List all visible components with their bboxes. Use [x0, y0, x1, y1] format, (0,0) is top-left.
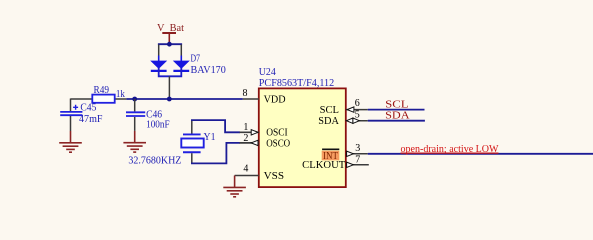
bottom plate	[60, 114, 82, 116]
svg-text:2: 2	[243, 133, 248, 144]
pin 7 stub with output arrow	[346, 162, 369, 167]
wire SDA	[368, 120, 425, 122]
anode pin left	[158, 45, 160, 56]
pin 1 stub with input arrow	[240, 130, 259, 135]
power port V_Bat	[157, 23, 184, 44]
pin 6 stub with input arrow	[346, 107, 368, 112]
top plate	[126, 111, 145, 113]
cathode join	[158, 68, 182, 76]
svg-text:SDA: SDA	[385, 110, 410, 122]
anode axis right	[180, 56, 182, 62]
svg-text:SCL: SCL	[320, 105, 339, 116]
svg-text:OSCO: OSCO	[266, 138, 290, 149]
wire crystal top to OSCI	[191, 120, 240, 132]
top plate	[183, 133, 201, 135]
common cathode pin	[168, 76, 170, 99]
resistor R49	[92, 85, 125, 103]
ground at VSS	[223, 187, 246, 196]
svg-text:OSCI: OSCI	[266, 128, 288, 139]
svg-text:5: 5	[355, 109, 360, 120]
svg-text:D7: D7	[191, 53, 201, 64]
svg-text:100nF: 100nF	[146, 120, 170, 131]
svg-text:32.7680KHZ: 32.7680KHZ	[128, 155, 181, 166]
wire SCL	[368, 109, 425, 111]
diode triangle right	[173, 61, 190, 69]
bottom pin	[70, 116, 72, 131]
svg-text:VSS: VSS	[264, 171, 285, 182]
ground under C46	[123, 131, 146, 152]
top pin	[191, 121, 193, 135]
bottom pin	[134, 117, 136, 131]
svg-text:VDD: VDD	[264, 95, 286, 106]
svg-text:1: 1	[243, 122, 248, 133]
wire rail VDD	[71, 98, 243, 100]
svg-text:1k: 1k	[116, 89, 126, 100]
note underline	[401, 152, 499, 154]
svg-text:47mF: 47mF	[79, 114, 103, 125]
bottom plate	[183, 151, 201, 153]
cathode bar right	[173, 70, 189, 72]
svg-text:7: 7	[355, 154, 360, 165]
INT overline	[322, 148, 339, 150]
svg-text:6: 6	[355, 98, 360, 109]
top pin	[134, 99, 136, 111]
svg-text:PCF8563T/F4,112: PCF8563T/F4,112	[259, 78, 334, 89]
anode pin right	[180, 45, 182, 56]
capacitor C46	[126, 99, 170, 131]
svg-text:8: 8	[243, 88, 248, 99]
svg-text:SDA: SDA	[318, 116, 339, 127]
pin 3 stub with output arrow	[346, 151, 368, 156]
top pin	[70, 99, 72, 112]
svg-text:3: 3	[355, 143, 360, 154]
svg-text:BAV170: BAV170	[191, 65, 226, 76]
IC U24 PCF8563T	[259, 67, 346, 187]
node junction diode	[167, 97, 172, 102]
pin 8 stub	[243, 98, 259, 100]
crystal Y1	[181, 121, 215, 164]
pin 5 stub with bidirectional arrow	[346, 118, 368, 123]
svg-text:U24: U24	[259, 67, 277, 78]
capacitor C45	[60, 99, 102, 132]
top plate	[60, 111, 82, 113]
body	[181, 139, 203, 148]
pin 2 stub with output arrow	[240, 140, 259, 145]
node junction at V_Bat	[167, 42, 172, 47]
bottom pin	[191, 153, 193, 163]
node junction C46	[132, 97, 137, 102]
bottom plate	[126, 115, 145, 117]
anode axis left	[158, 56, 160, 62]
svg-text:Y1: Y1	[204, 132, 216, 143]
wire V_Bat to diode anodes	[158, 43, 182, 45]
svg-text:4: 4	[243, 164, 248, 175]
svg-text:C45: C45	[80, 103, 96, 114]
wire crystal bottom to OSCO	[191, 143, 240, 164]
diode triangle left	[150, 61, 167, 69]
ground under C45	[59, 131, 82, 152]
wire INT open-drain	[368, 153, 593, 155]
INT highlight	[322, 151, 340, 161]
svg-text:R49: R49	[94, 85, 110, 96]
wire VSS to ground	[234, 176, 236, 188]
cathode bar left	[151, 70, 167, 72]
diode D7 BAV170 dual	[150, 45, 226, 100]
pin 4 stub	[235, 175, 259, 177]
plus sign	[73, 105, 78, 110]
svg-text:CLKOUT: CLKOUT	[302, 160, 346, 171]
